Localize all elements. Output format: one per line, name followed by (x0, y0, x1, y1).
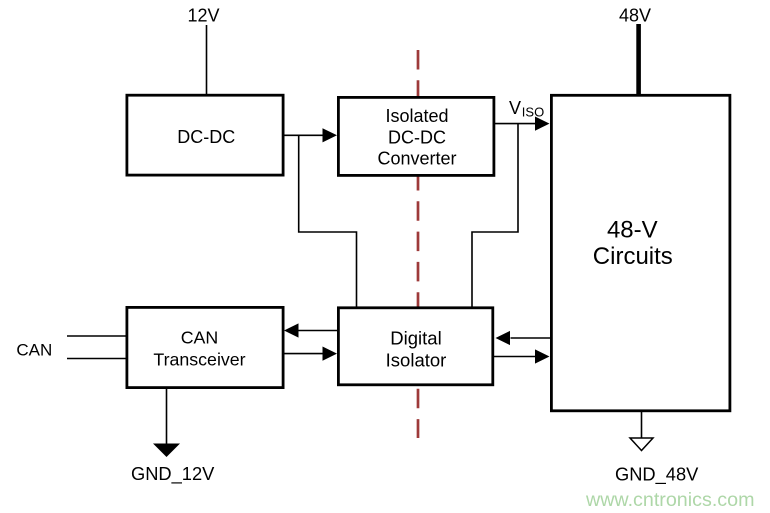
svg-text:Transceiver: Transceiver (153, 350, 245, 370)
svg-text:CAN: CAN (181, 328, 219, 348)
wire 12V supply to DC-DC (206, 25, 208, 95)
svg-text:Isolator: Isolator (386, 349, 447, 370)
wire 48-V Circuits to Digital Isolator (arrow left) (496, 331, 551, 345)
wire DC-DC output down to Digital Isolator (299, 135, 357, 307)
wire CAN Transceiver to GND_12V (166, 389, 168, 444)
block DC-DC (127, 95, 283, 175)
svg-text:12V: 12V (187, 6, 219, 26)
ground GND_12V arrow (153, 444, 180, 458)
ground GND_48V symbol (open triangle) (630, 438, 653, 451)
wire Digital Isolator to CAN Transceiver (arrow left) (284, 323, 337, 337)
svg-text:48-V: 48-V (607, 217, 658, 244)
block 48-V Circuits (551, 95, 730, 411)
wire CAN stub lower (67, 358, 126, 360)
wire 48-V Circuits to GND_48V (641, 412, 643, 438)
wire DC-DC to Isolated converter (arrow) (284, 128, 337, 142)
svg-text:DC-DC: DC-DC (177, 127, 235, 147)
block Isolated DC-DC Converter (338, 97, 494, 175)
svg-text:48V: 48V (619, 6, 651, 26)
block CAN Transceiver (127, 307, 283, 387)
block Digital Isolator (338, 308, 492, 385)
svg-text:GND_12V: GND_12V (131, 463, 215, 485)
wire CAN Transceiver to Digital Isolator (arrow right) (284, 347, 337, 361)
isolation barrier dashed line (middle span) (417, 171, 420, 307)
node VISO label (509, 98, 544, 120)
svg-text:Digital: Digital (390, 328, 441, 349)
wire 48V supply to 48-V Circuits (thick) (636, 24, 641, 95)
svg-text:ISO: ISO (522, 105, 544, 120)
svg-text:DC-DC: DC-DC (388, 127, 446, 147)
wire CAN stub upper (67, 335, 126, 337)
svg-text:www.cntronics.com: www.cntronics.com (585, 489, 754, 511)
isolation barrier dashed line (bottom span) (417, 389, 420, 438)
isolation barrier dashed line (top span) (417, 50, 420, 97)
svg-text:V: V (509, 98, 521, 118)
wire VISO down to Digital Isolator (472, 124, 518, 307)
svg-text:Isolated: Isolated (385, 106, 448, 126)
svg-text:GND_48V: GND_48V (615, 464, 699, 486)
svg-text:Converter: Converter (377, 149, 456, 169)
svg-text:CAN: CAN (16, 341, 52, 360)
svg-text:Circuits: Circuits (593, 243, 673, 270)
wire Digital Isolator to 48-V Circuits (arrow right) (494, 349, 550, 363)
wire VISO: Isolated converter to 48-V Circuits (arrow) (495, 117, 550, 131)
